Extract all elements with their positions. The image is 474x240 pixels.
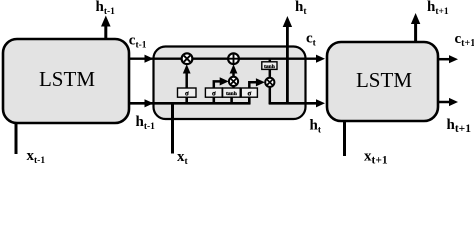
- wire: cell state line c (horizontal through middle cell): [129, 55, 325, 63]
- gate box: forget sigma: [178, 88, 197, 98]
- arrow: output gate sigma bent into output multiply node: [249, 78, 265, 88]
- svg-text:LSTM: LSTM: [356, 68, 412, 92]
- wire: candidate tanh up to merge multiply node: [232, 86, 235, 89]
- gate box: candidate tanh: [223, 88, 241, 97]
- svg-text:σ: σ: [212, 90, 216, 98]
- gate box: input sigma: [205, 88, 222, 98]
- gate box: output sigma: [241, 88, 257, 98]
- arrow: h_t-1 output up from left block: [101, 16, 111, 40]
- wire: hidden state output line h_t (from output multiply drop to right block): [269, 99, 325, 107]
- wire: riser from h line to forget gate sigma: [185, 97, 188, 104]
- wire: branch from cell line down through output tanh and multiply to h line: [269, 59, 272, 104]
- wire: hidden state input line h_t-1 (ends at output-gate riser): [129, 99, 251, 107]
- LSTM cell t (middle rounded box): [154, 47, 306, 120]
- multiply node: forget gate on cell line: [182, 53, 193, 64]
- arrow: h_t+1 output up from right block: [411, 13, 420, 42]
- svg-text:LSTM: LSTM: [39, 67, 95, 91]
- multiply node: input gate times candidate: [229, 77, 238, 86]
- wire: riser from h line to output gate sigma: [248, 97, 251, 104]
- svg-text:σ: σ: [247, 90, 251, 98]
- multiply node: output gate times tanh(c): [265, 78, 274, 87]
- wire: riser from h line to candidate tanh: [230, 97, 233, 104]
- gate box: output tanh on cell branch: [262, 62, 277, 70]
- svg-text:σ: σ: [185, 90, 189, 98]
- arrow: h_t branch upward out of cell: [283, 16, 292, 103]
- wire: riser from h line to input gate sigma: [213, 97, 216, 104]
- LSTM block t+1 (right rounded box): [327, 42, 438, 121]
- wire: x_t input rising into h line: [171, 103, 174, 153]
- LSTM block t-1 (left rounded box): [3, 39, 129, 123]
- add node: new cell contents on cell line: [228, 53, 239, 64]
- svg-text:tanh: tanh: [264, 64, 276, 70]
- arrow: h_t+1 output right of right block: [439, 98, 459, 106]
- arrow: merge multiply node up to add node: [230, 64, 238, 77]
- svg-text:tanh: tanh: [226, 91, 238, 97]
- arrow: forget gate sigma up to multiply node: [183, 64, 191, 88]
- arrow: input gate sigma bent into merge multiply node: [214, 77, 229, 88]
- arrow: c_t+1 output right of right block: [439, 55, 459, 63]
- wire: x_t+1 input below right block: [343, 120, 346, 156]
- wire: x_t-1 input below left block: [15, 122, 18, 154]
